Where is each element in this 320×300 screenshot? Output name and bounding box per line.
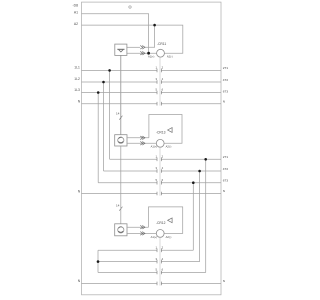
wire bottom row 1 (98, 249, 193, 251)
wire A2 branch down to upper plug (145, 25, 155, 47)
svg-text:14: 14 (116, 112, 120, 116)
contact CR12 pole 1 (157, 249, 161, 286)
contact CR11 pole 3 (157, 91, 161, 95)
wire box U1 bottom chain down (120, 55, 122, 134)
contact CR12 pole 2 (157, 260, 161, 264)
contact CR13 pole N (157, 192, 161, 196)
wire box U2 upper output (127, 137, 149, 139)
junction dot mid row2 (198, 170, 201, 173)
svg-text:14: 14 (116, 204, 120, 208)
svg-text:A2(-): A2(-) (166, 145, 172, 149)
junction dot coil A1 node (147, 52, 150, 55)
svg-text:6T3: 6T3 (223, 90, 229, 94)
wire A1 line to coil node (82, 14, 149, 53)
junction dot mid row1 (204, 158, 207, 161)
connector chevrons bottom upper (140, 225, 145, 235)
junction dot star bus (97, 260, 100, 263)
contact CR11 pole N (157, 102, 161, 106)
svg-text:N: N (78, 100, 81, 104)
svg-text:A1(+): A1(+) (151, 145, 158, 149)
wire N middle (82, 193, 222, 195)
wire bottom row 2 (98, 261, 200, 263)
svg-text:2: 2 (162, 246, 164, 250)
svg-text:-CR11: -CR11 (157, 42, 166, 46)
connector chevrons mid upper (140, 136, 145, 145)
junction dot L2 (102, 81, 105, 84)
svg-text:A2(-): A2(-) (167, 55, 173, 59)
wire box U3 lower output (127, 232, 156, 234)
coil CR12 (156, 230, 164, 238)
wire CR12 loop (149, 207, 183, 234)
flag triangle CR13 (168, 128, 173, 133)
wire 1L1 (82, 69, 222, 71)
node marker circle top (129, 6, 131, 8)
contact CR11 pole 1 (157, 69, 161, 106)
svg-text:-D8: -D8 (73, 4, 79, 8)
wire dropper L3 (97, 93, 99, 183)
svg-text:4: 4 (162, 77, 164, 81)
svg-text:N: N (223, 189, 225, 193)
svg-text:2T1: 2T1 (223, 155, 229, 159)
wire A2 line loop to coil right (82, 25, 183, 53)
svg-text:N: N (223, 99, 225, 103)
wire upper plug to box U1 (127, 46, 140, 48)
wire 1L3 (82, 92, 222, 94)
wire lower plug wire (127, 52, 157, 54)
svg-text:1L3: 1L3 (74, 88, 80, 92)
mechanical link CR12 (159, 237, 161, 285)
svg-text:A2(-): A2(-) (166, 235, 172, 239)
junction dot L1 (108, 69, 111, 72)
box U3 timer module (115, 224, 127, 236)
svg-text:-CR12: -CR12 (156, 221, 166, 225)
svg-text:1L1: 1L1 (74, 65, 80, 69)
wire riser row3 to star (192, 183, 194, 251)
border frame (82, 2, 222, 295)
wire riser row1 to star (205, 159, 207, 272)
mechanical link CR11 (159, 57, 161, 105)
svg-text:-CR13: -CR13 (156, 131, 166, 135)
wire mid row 1 (110, 158, 221, 160)
wire N bottom (82, 282, 222, 284)
svg-text:4: 4 (162, 257, 164, 261)
wire N top (82, 103, 222, 105)
wire chain mid to bottom box (120, 146, 122, 224)
wire dropper L2 (103, 82, 105, 171)
flag triangle CR12 (168, 218, 173, 223)
wire bottom row 3 (98, 272, 206, 274)
svg-text:1L2: 1L2 (74, 77, 80, 81)
svg-text:A2: A2 (74, 22, 78, 26)
svg-text:2T1: 2T1 (223, 66, 229, 70)
wire star bus (97, 250, 99, 272)
contact CR13 pole 1 (157, 158, 161, 196)
svg-text:4: 4 (162, 166, 164, 170)
wire mid row 3 (98, 182, 221, 184)
connector chevrons top upper (140, 46, 145, 56)
svg-text:A1: A1 (74, 11, 78, 15)
svg-text:6: 6 (162, 88, 164, 92)
svg-text:6: 6 (162, 178, 164, 182)
contact CR13 pole 3 (157, 181, 161, 185)
wire dropper L1 (109, 70, 111, 159)
contact CR13 pole 2 (157, 169, 161, 173)
svg-text:2: 2 (162, 66, 164, 70)
connector chevrons mid lower (140, 142, 143, 146)
contact CR12 pole N (157, 282, 161, 286)
svg-text:A1(+): A1(+) (148, 55, 155, 59)
connector chevrons top lower (140, 51, 143, 55)
wire 1L2 (82, 81, 222, 83)
coil CR13 (156, 139, 164, 147)
svg-text:N: N (78, 190, 81, 194)
mechanical link CR13 (159, 147, 161, 196)
svg-text:2: 2 (162, 155, 164, 159)
svg-text:A1(+): A1(+) (151, 235, 158, 239)
svg-text:4T2: 4T2 (223, 78, 229, 82)
wire riser row2 to star (199, 171, 201, 262)
wire box U2 lower output (127, 142, 156, 144)
connector chevrons bottom lower (140, 232, 143, 236)
junction dot mid row3 (192, 181, 195, 184)
wire CR13 loop (149, 115, 182, 144)
svg-text:N: N (223, 279, 225, 283)
contact CR11 pole 2 (157, 80, 161, 84)
junction dot A2 branch (153, 24, 156, 27)
svg-text:N: N (78, 279, 81, 283)
svg-text:4T2: 4T2 (223, 167, 229, 171)
coil CR11 (157, 49, 165, 57)
box U2 timer module (115, 135, 127, 146)
wire box U3 upper output (127, 226, 149, 228)
junction dot L3 (97, 91, 100, 94)
box U1 output module (115, 44, 127, 135)
svg-text:6T3: 6T3 (223, 178, 229, 182)
contact CR12 pole 3 (157, 271, 161, 275)
svg-text:6: 6 (162, 268, 164, 272)
wire mid row 2 (104, 170, 222, 172)
